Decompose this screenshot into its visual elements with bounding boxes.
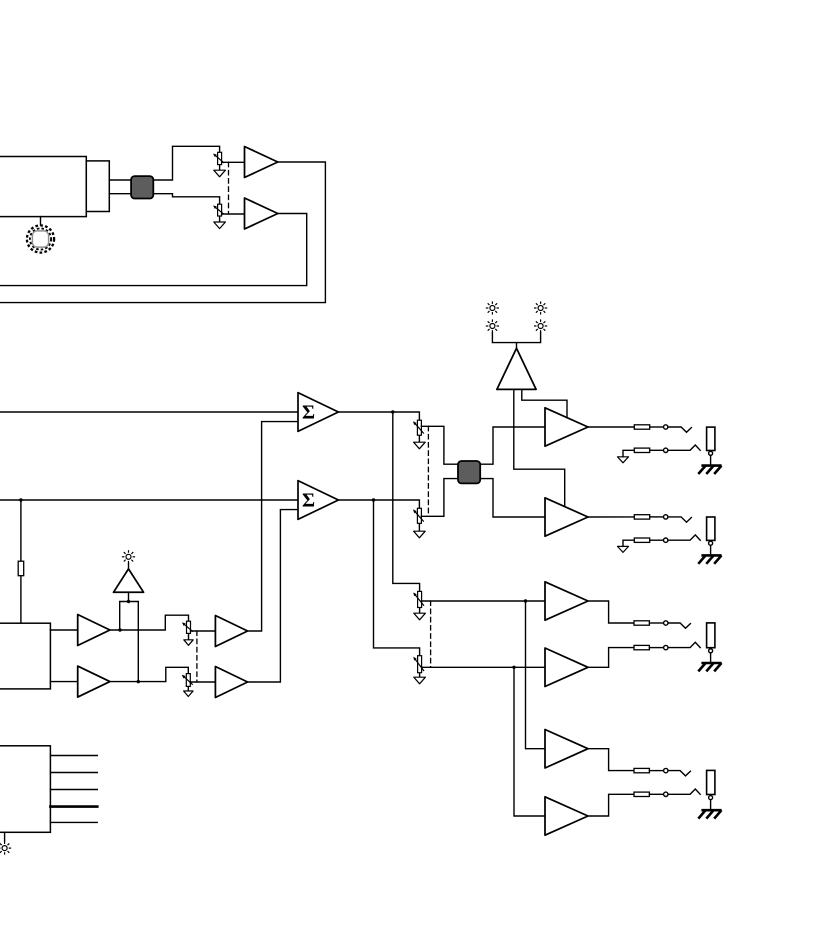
wire mixer input line 2 [0,499,298,501]
source unit box (cut off at left edge) [0,157,86,217]
wire source to coupler bottom [109,193,131,195]
ground arrow jack1 [618,457,629,463]
LED L1 [486,301,499,314]
motor / platter [27,225,54,252]
wire D1 tap right channel [514,389,565,506]
wire U1 output to pot P3 [338,412,419,420]
wire jack2 sleeve to terminal [650,539,664,541]
wire jack3 tip to terminal [649,622,663,624]
switch blade jack1 tip [668,427,691,432]
wire U2 output to pot P4 [338,500,419,508]
wire A12 output to summing U2 [248,510,298,682]
wire tap to load resistor [20,500,22,561]
line amp A11 [215,616,247,647]
wire A8 to jack4 [588,794,634,816]
wire A4 to jack2 resistor [588,516,634,518]
wire P1 wiper to amp A1 [222,161,245,163]
wire P5 wiper to amp A5 [422,600,545,602]
switch blade jack3 tip [668,623,690,628]
wire A11 output to summing U1 [248,422,298,631]
gang dashed link P5-P6 [430,601,432,667]
resistor jack4 tip [634,768,649,772]
wire coupler2 to amp A4 [480,479,545,517]
resistor jack2 sleeve [634,538,649,542]
LED L2 [534,301,547,314]
preamp A10 [78,666,110,697]
gang dashed link P3-P4 [427,426,429,516]
wire phono L out [50,629,77,631]
terminal jack3 tip [664,621,668,625]
wire U1 output branch to pot P5 [393,412,420,591]
LED L5 [122,550,135,563]
wire A2 output loop [0,214,307,286]
terminal jack4 shield [709,796,713,800]
potentiometer P6 [413,656,425,684]
svg-text:Σ: Σ [302,402,315,424]
wire branch to amp A7 [526,601,546,749]
line amp A8 [545,797,588,835]
wire A9 out to pot P7 [110,615,189,630]
resistor jack3 tip [634,621,649,625]
junction D2 input [127,600,130,603]
LED driver amp D2 [114,569,144,592]
LED L6 power indicator [0,842,11,855]
jack plug 1 [707,427,715,450]
terminal jack1 tip [664,425,668,429]
gang dashed link P1-P2 [228,162,230,214]
wire jack1 to chassis [710,455,712,465]
wire A10 out to pot P8 [110,667,188,681]
terminal jack3 ring [664,645,668,649]
wire LED L5 stem [128,563,130,569]
chassis ground 4 [698,810,721,818]
wire jack4 tip to terminal [649,770,663,772]
wire jack3 to chassis [710,653,712,663]
wire source to coupler top [109,179,131,181]
wire jack1 tip to terminal [650,426,664,428]
headphone amp A3 [545,408,588,446]
headphone amp A4 [545,498,588,536]
wire jack2 tip to terminal [650,516,664,518]
junction U1 output [391,410,394,413]
switch blade jack4 tip [668,771,690,776]
wire jack1 sleeve to terminal [650,449,664,451]
potentiometer P4 [413,508,425,538]
wire P8 wiper to amp A12 [190,681,215,683]
wire A1 output loop [0,162,325,303]
wire D2 tap bar [120,602,139,682]
wire jack3 ring to terminal [649,647,663,649]
wire psu LED stem [4,832,6,841]
potentiometer P2 [213,204,225,228]
wire U2 output branch to pot P6 [374,500,420,656]
terminal jack4 tip [664,768,668,772]
potentiometer P3 [413,420,425,449]
wire psu output 3 [50,789,97,791]
wire P4 wiper to coupler2 [421,479,458,517]
switch blade jack2 tip [668,517,691,522]
wire coupler1 to pot P1 [153,146,219,180]
line amp A12 [215,667,247,698]
wire jack4 to chassis [710,800,712,811]
resistor jack1 sleeve [634,448,649,452]
resistor jack1 tip [634,425,649,429]
resistor jack4 ring [634,792,649,796]
wire load resistor to phono box [20,576,22,624]
junction LED tap right [137,680,140,683]
summing amp U1 [298,393,338,432]
terminal jack2 tip [664,515,668,519]
junction input line 2 tap [19,498,22,501]
terminal jack1 shield [709,451,713,455]
wire jack4 ring to terminal [649,793,663,795]
wire P3 wiper to coupler2 [421,426,458,464]
wire branch to amp A8 [514,667,545,816]
wire D1 tap left channel [522,389,567,417]
gang dashed link P7-P8 [196,631,198,682]
junction P6 output [512,666,515,669]
wire mixer input line 1 [0,411,298,413]
chassis ground 2 [698,555,721,563]
switch blade jack4 ring [668,789,700,794]
chassis ground 1 [698,466,721,474]
ground arrow jack2 [618,546,629,552]
wire motor stem [40,217,42,225]
line amp A7 [545,730,588,769]
jack plug 2 [707,517,715,540]
potentiometer P8 [182,674,193,697]
LED driver amp D1 [497,348,536,389]
junction U2 output [372,498,375,501]
coupler block 1 [131,176,153,198]
line amp A6 [545,648,588,687]
wire P6 wiper to amp A6 [422,666,545,668]
terminal jack4 ring [664,792,668,796]
buffer amp A1 [245,147,278,178]
wire LED driver stem [516,343,518,349]
terminal jack3 shield [709,649,713,653]
wire P2 wiper to amp A2 [222,213,245,215]
wire jack1 ground row [623,450,634,457]
wire psu output 1 [50,755,97,757]
wire A7 to jack4 [588,749,634,771]
switch blade jack3 ring [668,642,700,647]
jack plug 3 [707,623,715,648]
preamp A9 [78,615,110,646]
LED L3 [486,319,499,332]
coupler block 2 [458,461,480,483]
source unit connector step [86,161,109,212]
wire psu output 2 [50,772,97,774]
wire LED bracket [492,333,540,343]
wire jack2 ground row [623,540,634,546]
wire D2 input stem [128,592,130,601]
junction P5 output [524,599,527,602]
line amp A5 [545,582,588,620]
wire A5 to jack3 [588,601,634,623]
junction LED tap left [118,628,121,631]
summing amp U2 [298,481,338,520]
wire A6 to jack3 [588,648,634,668]
terminal jack2 sleeve [664,538,668,542]
wire coupler1 to pot P2 [153,194,219,205]
potentiometer P5 [413,591,425,619]
power supply box (cut off at left edge) [0,746,50,833]
wire A3 to jack1 resistor [588,426,634,428]
wire P7 wiper to amp A11 [191,630,216,632]
terminal jack2 shield [709,541,713,545]
wire jack2 to chassis [710,545,712,555]
wire psu output 4 (bus) [50,805,97,808]
wire coupler2 to amp A3 [480,427,545,464]
svg-text:Σ: Σ [302,490,315,512]
load resistor R1 [18,561,24,576]
resistor jack3 ring [634,645,649,649]
potentiometer P7 [182,621,193,645]
resistor jack2 tip [634,515,649,519]
terminal jack1 sleeve [664,448,668,452]
switch blade jack1 sleeve [668,445,700,450]
wire psu output 5 [50,821,97,823]
buffer amp A2 [245,198,278,229]
jack plug 4 [707,770,715,794]
phono source box (cut off at left edge) [0,623,50,689]
switch blade jack2 sleeve [668,535,700,540]
wire phono R out [50,681,77,683]
chassis ground 3 [698,663,721,671]
potentiometer P1 [213,152,225,177]
LED L4 [534,319,547,332]
